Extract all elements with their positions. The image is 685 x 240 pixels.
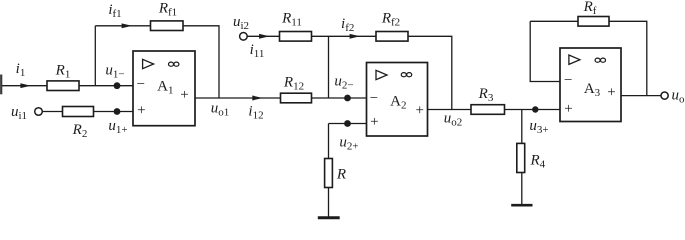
op-amp A1 body	[133, 51, 195, 126]
terminal ui1	[35, 108, 43, 116]
wire u2+ down to R	[328, 124, 330, 159]
current arrow if2	[350, 34, 360, 39]
wire feedback top left (stage3)	[530, 20, 578, 22]
A1 ideal triangle	[143, 59, 154, 68]
ground (R4)	[511, 204, 532, 207]
node u2+	[344, 120, 351, 127]
wire Rf1 to output node (stage1)	[183, 26, 219, 98]
node u1-	[114, 82, 121, 89]
wire junction down to R4	[521, 110, 523, 144]
current arrow if1	[122, 23, 132, 28]
wire A1 output to R12	[195, 97, 281, 99]
resistor R4	[517, 143, 525, 172]
op-amp A3 body	[560, 48, 621, 122]
svg-text:+: +	[415, 102, 423, 118]
op-amp A2 body	[367, 63, 428, 137]
svg-text:−: −	[370, 91, 378, 107]
A1 infinity gain symbol	[169, 62, 179, 66]
current arrow i1	[20, 83, 30, 88]
wire A2 output to R3	[428, 109, 472, 111]
svg-text:+: +	[370, 114, 378, 130]
wire R4 to ground	[521, 173, 523, 205]
A3 ideal triangle	[569, 55, 580, 64]
wire feedback top left (stage1)	[95, 25, 150, 27]
resistor R	[325, 159, 333, 188]
svg-text:+: +	[564, 101, 572, 117]
resistor Rf	[578, 17, 609, 27]
current arrow i12	[252, 96, 262, 101]
wire Rf to output node (stage3)	[609, 21, 647, 95]
resistor Rf1	[151, 21, 184, 31]
wire feedback riser (stage1)	[94, 26, 96, 86]
wire junction down to u2-	[328, 36, 330, 98]
terminal uo	[661, 92, 668, 99]
wire input to R1	[2, 85, 47, 87]
A3 infinity gain symbol	[595, 58, 605, 62]
svg-text:R: R	[336, 166, 346, 182]
resistor R12	[281, 93, 312, 103]
wire ui1 to R2	[42, 111, 62, 113]
wire feedback riser (stage3)	[530, 21, 560, 81]
resistor R3	[471, 105, 505, 115]
svg-text:+: +	[180, 87, 188, 103]
node u1+	[114, 108, 121, 115]
node u2-	[344, 95, 351, 102]
wire R1 to A1 inverting input	[79, 85, 133, 87]
svg-text:+: +	[607, 84, 615, 100]
wire R3 to A3 noninverting input	[505, 109, 561, 111]
current arrow i11	[259, 34, 269, 39]
svg-text:−: −	[564, 73, 572, 89]
resistor R1	[47, 81, 79, 91]
svg-text:+: +	[137, 103, 145, 119]
wire u2+ to A2 noninverting input	[329, 123, 367, 125]
resistor R2	[63, 107, 94, 117]
wire ui2 to R11	[247, 35, 279, 37]
wire R to ground	[328, 188, 330, 218]
wire Rf2 to output node (stage2)	[408, 36, 452, 109]
wire R11 to Rf2	[312, 35, 377, 37]
node u3+	[532, 106, 538, 112]
A2 infinity gain symbol	[401, 73, 411, 77]
ground (stage2)	[318, 216, 340, 219]
terminal ui2	[240, 33, 248, 41]
wire R12 to A2 inverting input	[312, 97, 367, 99]
wire A3 output to uo terminal	[621, 95, 661, 97]
input terminal bar	[0, 75, 2, 95]
resistor Rf2	[376, 32, 408, 42]
wire R2 to A1 noninverting input	[94, 111, 134, 113]
A2 ideal triangle	[376, 70, 387, 79]
resistor R11	[280, 32, 312, 42]
svg-text:−: −	[137, 76, 145, 92]
